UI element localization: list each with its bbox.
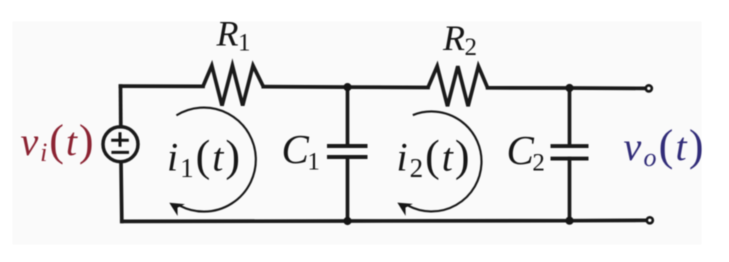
wire: left vertical above source (119, 86, 123, 127)
wire: bottom horizontal (node C to node D) (348, 219, 570, 223)
mesh current i2 arrowhead (399, 203, 411, 213)
capacitor C2 top lead wire (568, 88, 572, 146)
svg-text:i2(t): i2(t) (397, 132, 472, 184)
resistor R1 (203, 66, 263, 106)
node A junction dot (top of C1) (343, 83, 351, 91)
wire: bottom horizontal (source to node C) (122, 219, 348, 223)
capacitor C2 plates (551, 146, 589, 159)
wire: node D to bottom output terminal (570, 218, 648, 222)
mesh current i2 loop arrow arc (408, 111, 482, 211)
voltage source plus sign (111, 132, 129, 147)
wire: node A to R2 (348, 85, 429, 89)
voltage source V1 circle (103, 127, 138, 162)
svg-text:vo(t): vo(t) (624, 121, 706, 172)
wire: R1 to node A (263, 85, 347, 89)
wire: R2 to node B (488, 86, 570, 90)
voltage source minus sign (111, 151, 129, 154)
wire: node B to top output terminal (570, 86, 647, 90)
wire: top-left horizontal (source to R1) (121, 84, 204, 88)
bottom output terminal (open circle) (647, 217, 653, 223)
node D junction dot (bottom of C2) (565, 217, 573, 225)
resistor R2 (428, 66, 488, 106)
capacitor C1 bottom lead wire (346, 157, 350, 221)
capacitor C2 bottom lead wire (568, 159, 572, 221)
mesh current i1 arrowhead (171, 204, 183, 214)
svg-text:R1: R1 (216, 14, 251, 57)
svg-text:i1(t): i1(t) (167, 132, 242, 184)
capacitor C1 plates (327, 146, 368, 157)
node C junction dot (bottom of C1) (343, 217, 351, 225)
mesh current i1 loop arrow arc (176, 108, 255, 212)
capacitor C1 top lead wire (346, 87, 350, 146)
top output terminal (open circle) (646, 85, 652, 91)
node B junction dot (top of C2) (565, 84, 573, 92)
svg-text:vi(t): vi(t) (21, 116, 96, 167)
wire: left vertical below source (119, 162, 124, 222)
